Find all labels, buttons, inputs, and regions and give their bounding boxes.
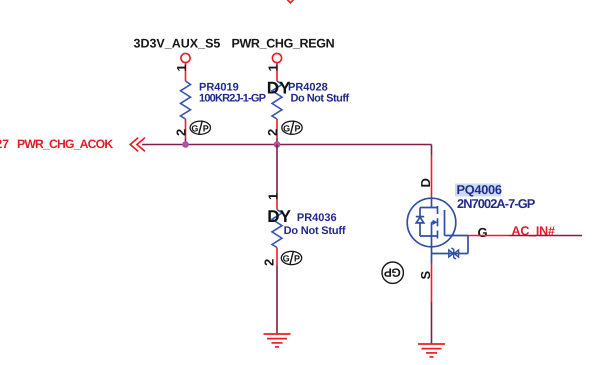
junction node at PR4019/wire [182, 141, 189, 148]
svg-text:PWR_CHG_ACOK: PWR_CHG_ACOK [17, 137, 113, 151]
GP flag of PQ4006 [382, 262, 403, 283]
transistor PQ4006 [407, 198, 456, 263]
svg-text:PR4019: PR4019 [199, 82, 239, 94]
svg-text:PR4036: PR4036 [297, 212, 337, 224]
svg-text:D: D [418, 178, 433, 187]
resistor PR4028 pin 1 [276, 63, 278, 82]
wire PR4036 to ground [276, 266, 278, 335]
svg-text:2: 2 [174, 129, 189, 136]
resistor PR4036 body [272, 210, 282, 248]
svg-text:S: S [418, 271, 433, 280]
svg-text:100KR2J-1-GP: 100KR2J-1-GP [199, 93, 266, 105]
resistor PR4036 pin 2 [276, 248, 278, 266]
MOSFET gate pin (red) [468, 235, 509, 237]
svg-text:2: 2 [265, 129, 280, 136]
MOSFET drain pin [431, 155, 433, 198]
wire PWR_CHG_ACOK horizontal [142, 144, 432, 146]
off-page connector chevron << [130, 138, 145, 152]
G/P flag of PR4036 [281, 251, 301, 265]
svg-text:PWR_CHG_REGN: PWR_CHG_REGN [232, 37, 335, 51]
off-page chevron (top, pointing down) [287, 0, 293, 3]
resistor PR4028 body [272, 81, 282, 119]
svg-text:3D3V_AUX_S5: 3D3V_AUX_S5 [134, 37, 221, 51]
resistor PR4028 pin 2 [276, 119, 278, 138]
resistor PR4019 pin 1 [185, 63, 187, 82]
wire junction to PR4036 [276, 145, 278, 194]
ground (PR4036) [264, 334, 291, 347]
svg-text:PR4028: PR4028 [288, 82, 328, 94]
G/P flag of PR4028 [282, 121, 302, 135]
resistor PR4019 pin 2 [185, 119, 187, 138]
svg-text:1: 1 [265, 193, 280, 200]
svg-text:2N7002A-7-GP: 2N7002A-7-GP [457, 196, 536, 211]
svg-text:AC_IN#: AC_IN# [512, 224, 556, 238]
junction node at PR4028/wire [274, 141, 281, 148]
svg-text:G: G [283, 123, 290, 133]
G/P flag of PR4019 [190, 121, 210, 135]
svg-text:GP: GP [384, 266, 401, 280]
svg-text:P: P [294, 254, 300, 264]
MOSFET source pin [431, 263, 433, 302]
svg-text:PQ4006: PQ4006 [457, 182, 502, 197]
svg-text:Do Not Stuff: Do Not Stuff [291, 93, 350, 105]
svg-text:Do Not Stuff: Do Not Stuff [284, 225, 346, 237]
svg-text:2: 2 [262, 259, 277, 266]
svg-text:1: 1 [266, 64, 281, 71]
resistor PR4036 pin 1 [276, 193, 278, 210]
zener ESD diode (gate-source) [449, 248, 459, 259]
resistor PR4019 body [181, 81, 191, 119]
ground (PQ4006 source) [418, 344, 445, 357]
svg-text:P: P [295, 123, 301, 133]
MOSFET gate lead [432, 236, 469, 254]
wire corner to MOSFET drain [431, 145, 433, 156]
wire source to ground [431, 302, 433, 344]
svg-text:G: G [283, 254, 290, 264]
svg-text:1: 1 [174, 64, 189, 71]
svg-text:DY: DY [267, 207, 291, 226]
svg-text:G: G [191, 123, 198, 133]
net AC_IN# wire [509, 235, 582, 237]
svg-text:27: 27 [0, 137, 9, 151]
svg-text:P: P [203, 123, 209, 133]
svg-text:G: G [478, 225, 488, 240]
